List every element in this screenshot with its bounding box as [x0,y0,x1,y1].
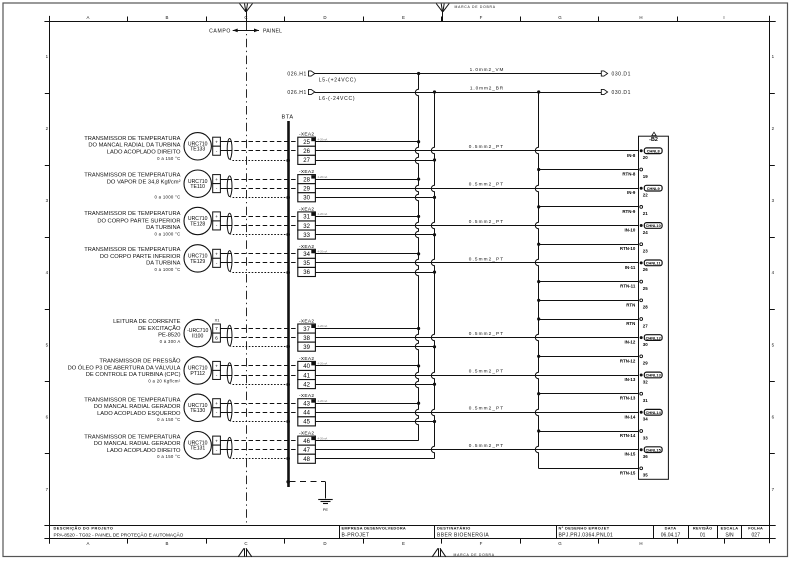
svg-text:0.5mm2_PT: 0.5mm2_PT [469,406,504,411]
wire +24 feed terminal 31 [315,216,418,218]
svg-text:Nº DESENHO EPROJET: Nº DESENHO EPROJET [559,526,610,531]
svg-text:0.5mm2_PT: 0.5mm2_PT [469,443,504,448]
junction L6 bus2 [433,90,436,93]
pin 34 IN-14 of card -B2 [625,409,663,421]
svg-text:REVISÃO: REVISÃO [693,526,713,531]
svg-text:DO MANCAL RADIAL GERADOR: DO MANCAL RADIAL GERADOR [94,404,181,410]
svg-text:7: 7 [215,326,218,332]
svg-text:PE: PE [323,507,329,512]
junction terminal 36 to bus2 [433,271,436,274]
junction RTN-8 bus3 [537,168,540,171]
pin 25 RTN-11 of card -B2 [620,280,648,291]
svg-text:6: 6 [215,335,218,341]
junction terminal 42 to bus2 [433,383,436,386]
wire shield terminal 36 [315,272,434,274]
terminal block -XEA2 25-27 [298,132,328,165]
wire BTA to ground [290,482,326,499]
wire shield drain of TE131 to BTA [230,457,289,460]
pin 23 RTN-10 of card -B2 [620,243,648,254]
svg-text:4-20mA: 4-20mA [318,399,328,403]
svg-text:41: 41 [303,373,310,379]
svg-text:4-20mA: 4-20mA [318,250,328,254]
junction terminal 33 to bus2 [433,233,436,236]
svg-text:IN-14: IN-14 [625,414,636,419]
svg-text:RTN-12: RTN-12 [620,358,636,363]
svg-text:C: C [244,541,247,546]
junction BTA to PE [286,480,290,484]
wire field - of TE128 [220,225,227,227]
junction terminal 27 to bus2 [433,158,436,161]
wire signal terminal 47 0.5mm2_PT [315,443,638,449]
svg-text:DA TURBINA: DA TURBINA [146,225,181,231]
junction shield TE131 on BTA [286,457,290,461]
pin 24 IN-10 of card -B2 [625,223,663,235]
fold mark bottom C [238,548,252,557]
fold mark top C [240,4,253,22]
svg-text:0 a 1000 °C: 0 a 1000 °C [154,195,180,200]
node CAMPO/PAINEL boundary labels [209,28,282,34]
ground PE [318,500,333,504]
wire shield terminal 39 [315,346,434,348]
wire shield terminal 48 [315,458,434,460]
svg-text:PE-8520: PE-8520 [158,333,180,339]
svg-text:DO MANCAL RADIAL DA TURBINA: DO MANCAL RADIAL DA TURBINA [88,142,180,148]
svg-text:S/N: S/N [725,533,734,539]
wire +24 feed terminal 40 [315,365,418,367]
junction terminal 28 to bus1 [417,178,420,181]
wire L6-(-24VCC) rail [315,86,602,103]
svg-text:A: A [87,15,90,20]
wire signal terminal 29 0.5mm2_PT [315,182,638,189]
pin 36 IN-15 of card -B2 [625,447,663,459]
wire signal terminal 35 0.5mm2_PT [315,256,638,262]
svg-text:0.5mm2_PT: 0.5mm2_PT [469,182,504,187]
junction RTN-9 bus3 [537,205,540,208]
svg-text:DE EXCITAÇÃO: DE EXCITAÇÃO [138,325,181,332]
node BTA cable duct [282,114,294,487]
svg-text:1.0mm2_VM: 1.0mm2_VM [470,67,505,72]
junction shield TE110 on BTA [286,196,290,200]
junction terminal 39 to bus2 [433,345,436,348]
wire L5-(+24VCC) rail [315,67,602,84]
svg-text:RTN-14: RTN-14 [620,433,636,438]
svg-text:22: 22 [643,193,648,198]
svg-text:31: 31 [303,215,310,221]
svg-text:PT112: PT112 [190,371,205,377]
svg-text:L5-(+24VCC): L5-(+24VCC) [319,78,357,84]
svg-text:33: 33 [303,233,310,239]
svg-text:28: 28 [643,305,648,310]
wire field + of PT112 [220,365,227,367]
svg-text:IN-8: IN-8 [627,153,636,158]
svg-text:X1: X1 [215,317,221,322]
svg-text:DO CORPO PARTE SUPERIOR: DO CORPO PARTE SUPERIOR [97,219,180,225]
svg-text:20: 20 [643,155,648,160]
svg-text:BPJ.PRJ.0364.PNL01: BPJ.PRJ.0364.PNL01 [559,533,614,539]
svg-text:4-20mA: 4-20mA [318,137,328,141]
terminal block -XEA2 37-39 [298,319,328,352]
svg-text:0.5mm2_PT: 0.5mm2_PT [469,368,504,373]
label transmitter PT112 description [68,358,181,384]
wire shield drain of TE133 to BTA [230,159,289,160]
wire +24 feed terminal 25 [315,141,418,143]
wire field - of TE130 [220,412,227,414]
cable shield of II100 [227,325,232,346]
wire RTN-9 pin 21 [539,206,639,208]
junction RTN-13 bus3 [537,392,540,395]
svg-text:27: 27 [303,158,310,164]
node 030.D1 dest L5 [601,71,631,78]
svg-text:40: 40 [303,364,310,370]
svg-text:37: 37 [303,327,310,333]
junction shield TE130 on BTA [286,420,290,424]
terminals of TE128 [213,212,221,230]
svg-text:L6-(-24VCC): L6-(-24VCC) [319,96,356,102]
transmitter II100 (-URC710) [184,319,211,346]
terminals of II100 [213,317,221,342]
cable shield of TE130 [227,400,232,421]
label transmitter TE131 description [84,435,181,460]
wire RTN-8 pin 19 [539,169,639,171]
svg-text:+: + [215,253,218,258]
svg-text:32: 32 [303,224,310,230]
junction RTN-14 bus3 [537,429,540,432]
pin 19 RTN-8 of card -B2 [622,168,648,179]
junction shield TE128 on BTA [286,233,290,237]
svg-text:26: 26 [303,149,310,155]
wire signal terminal 41 0.5mm2_PT [315,368,638,375]
svg-text:DESCRIÇÃO DO PROJETO: DESCRIÇÃO DO PROJETO [54,526,114,531]
junction L5 bus1 [417,72,420,75]
wire RTN pin 27 [539,319,639,321]
svg-text:TE133: TE133 [190,147,205,153]
svg-text:LEITURA DE CORRENTE: LEITURA DE CORRENTE [113,319,181,325]
svg-text:TRANSMISSOR DE TEMPERATURA: TRANSMISSOR DE TEMPERATURA [84,398,180,404]
wire +24 feed terminal 37 [315,328,418,330]
wire shield drain of TE128 to BTA [230,233,289,236]
wire field + of TE133 [220,141,227,143]
wire field - of TE133 [220,150,227,152]
wire field - of TE129 [220,262,227,264]
svg-text:36: 36 [303,270,310,276]
svg-text:LADO ACOPLADO ESQUERDO: LADO ACOPLADO ESQUERDO [97,411,181,417]
junction terminal 30 to bus2 [433,196,436,199]
svg-text:43: 43 [303,402,310,408]
junction shield II100 on BTA [286,345,290,349]
bus -24VCC shield collector (bus2) [431,93,434,459]
cable shield of TE129 [227,251,232,272]
junction terminal 34 to bus1 [417,252,420,255]
wire shield drain of TE130 to BTA [230,420,289,423]
svg-text:0 a 150 °C: 0 a 150 °C [157,156,180,161]
svg-text:BTA: BTA [282,114,294,120]
svg-text:38: 38 [303,336,310,342]
svg-text:21: 21 [643,211,648,216]
junction shield TE129 on BTA [286,271,290,275]
svg-text:RTN: RTN [626,302,635,307]
svg-text:TE131: TE131 [190,446,205,452]
pin 35 RTN-15 of card -B2 [620,467,648,478]
svg-text:A: A [87,541,90,546]
pin 21 RTN-9 of card -B2 [622,206,648,217]
svg-text:CHNL15: CHNL15 [646,447,662,452]
svg-text:0.5mm2_PT: 0.5mm2_PT [469,144,504,149]
svg-text:+: + [215,140,218,145]
svg-text:G: G [558,541,562,546]
svg-text:B-PROJET: B-PROJET [342,533,370,539]
svg-text:31: 31 [643,398,648,403]
svg-text:0.5mm2_PT: 0.5mm2_PT [469,256,504,261]
label transmitter II100 description [113,319,181,344]
terminal block -XEA2 43-45 [298,393,328,426]
svg-text:4-20mA: 4-20mA [318,175,328,179]
wire field + of TE128 [220,216,227,218]
svg-text:48: 48 [303,457,310,463]
svg-text:RTN: RTN [626,321,635,326]
svg-text:B: B [166,15,169,20]
wire field - of TE110 [220,188,227,190]
junction RTN-11 bus3 [537,280,540,283]
svg-text:06.04.17: 06.04.17 [661,533,681,539]
wire field + of II100 [220,328,227,330]
svg-text:33: 33 [643,435,648,440]
wire signal terminal 38 0.5mm2_PT [315,331,638,338]
wire field + of TE129 [220,253,227,255]
wire shield drain of TE129 to BTA [230,271,289,272]
svg-text:39: 39 [303,345,310,351]
svg-text:DATA: DATA [665,526,677,531]
svg-text:E: E [402,15,405,20]
wire signal terminal 32 0.5mm2_PT [315,219,638,226]
svg-text:TRANSMISSOR DE TEMPERATURA: TRANSMISSOR DE TEMPERATURA [84,247,180,253]
svg-text:TRANSMISSOR DE TEMPERATURA: TRANSMISSOR DE TEMPERATURA [84,211,180,217]
svg-text:LADO ACOPLADO DIREITO: LADO ACOPLADO DIREITO [107,149,181,155]
svg-text:30: 30 [303,196,310,202]
svg-text:FOLHA: FOLHA [748,526,763,531]
junction RTN-12 bus3 [537,355,540,358]
terminals of TE129 [213,249,221,267]
node 030.D1 dest L6 [601,89,631,96]
svg-text:4-20mA: 4-20mA [318,324,328,328]
junction terminal 31 to bus1 [417,215,420,218]
cable shield of TE133 [227,139,232,160]
svg-text:44: 44 [303,411,310,417]
svg-text:MARCA DE DOBRA: MARCA DE DOBRA [454,553,495,557]
pin 27 RTN of card -B2 [626,318,648,329]
svg-text:1.0mm2_BR: 1.0mm2_BR [470,86,504,91]
svg-text:+: + [215,215,218,220]
svg-text:IN-10: IN-10 [625,228,636,233]
terminals of PT112 [213,361,221,379]
svg-text:23: 23 [643,249,648,254]
svg-text:RTN-15: RTN-15 [620,470,636,475]
svg-text:BBER BIOENERGIA: BBER BIOENERGIA [437,533,489,539]
wire RTN-10 pin 23 [539,244,639,246]
svg-text:0 a 150 °C: 0 a 150 °C [157,454,180,459]
svg-text:CHNL8: CHNL8 [647,149,661,154]
wire shield drain of PT112 to BTA [230,383,289,384]
svg-text:IN-11: IN-11 [625,265,636,270]
svg-text:D: D [323,541,326,546]
svg-text:4-20mA: 4-20mA [318,436,328,440]
label transmitter TE128 description [84,211,180,237]
svg-text:RTN-9: RTN-9 [622,209,635,214]
svg-text:36: 36 [643,454,648,459]
svg-text:-B2: -B2 [649,137,658,143]
svg-text:F: F [480,15,483,20]
svg-text:CHNL9: CHNL9 [647,186,661,191]
svg-text:35: 35 [303,261,310,267]
svg-text:TE129: TE129 [190,259,205,265]
svg-text:RTN-11: RTN-11 [620,284,636,289]
wire field - of TE131 [220,449,227,451]
svg-text:32: 32 [643,379,648,384]
cable shield of TE131 [227,437,232,458]
junction terminal 37 to bus1 [417,327,420,330]
terminal block -XEA2 28-30 [298,169,328,202]
cable shield of TE110 [227,176,232,197]
svg-text:IN-15: IN-15 [625,452,636,457]
svg-text:DE CONTROLE DA TURBINA (CPC): DE CONTROLE DA TURBINA (CPC) [86,372,181,378]
svg-text:DO VAPOR DE 34,8 Kgf/cm²: DO VAPOR DE 34,8 Kgf/cm² [107,179,181,185]
svg-text:TE130: TE130 [190,408,205,414]
cable shield of PT112 [227,363,232,384]
terminals of TE130 [213,399,221,417]
wire +24 feed terminal 46 [315,440,418,442]
node 026.H1 source L5 [287,71,314,78]
svg-text:TRANSMISSOR DE PRESSÃO: TRANSMISSOR DE PRESSÃO [99,358,181,365]
svg-text:H: H [639,15,642,20]
svg-text:0 a 1000 °C: 0 a 1000 °C [154,232,180,237]
pin 33 RTN-14 of card -B2 [620,430,648,441]
transmitter TE128 (URC710) [184,207,211,234]
svg-text:4-20mA: 4-20mA [318,212,328,216]
junction terminal 45 to bus2 [433,420,436,423]
svg-text:TE128: TE128 [190,221,205,227]
fold mark top F [436,4,449,22]
terminal block -XEA2 31-33 [298,206,328,239]
svg-text:30: 30 [643,342,648,347]
svg-text:CHNL12: CHNL12 [646,335,662,340]
svg-text:H: H [639,541,642,546]
transmitter TE110 (URC710) [184,170,211,197]
svg-text:LADO ACOPLADO DIREITO: LADO ACOPLADO DIREITO [107,448,181,454]
svg-text:45: 45 [303,420,310,426]
terminals of TE110 [213,175,221,193]
wire campo/painel boundary line [246,22,248,525]
svg-text:42: 42 [303,382,310,388]
svg-text:25: 25 [643,286,648,291]
svg-text:D: D [323,15,326,20]
svg-text:ESCALA: ESCALA [721,526,739,531]
node 026.H1 source L6 [287,89,314,96]
svg-text:F: F [480,541,483,546]
wire RTN-13 pin 31 [539,393,639,395]
svg-text:0 a 150 °C: 0 a 150 °C [157,417,180,422]
wire field + of TE131 [220,440,227,442]
svg-text:027: 027 [752,533,761,539]
svg-text:26: 26 [643,267,648,272]
title block [340,525,742,539]
svg-text:RTN-13: RTN-13 [620,396,636,401]
pin 30 IN-12 of card -B2 [625,335,663,347]
wire shield terminal 33 [315,234,434,236]
svg-text:IN-13: IN-13 [625,377,636,382]
junction RTN bus3 [537,317,540,320]
wire signal terminal 26 0.5mm2_PT [315,144,638,150]
pin 20 IN-8 of card -B2 [627,148,662,160]
svg-text:I: I [723,15,724,20]
terminal block -XEA2 40-42 [298,356,328,389]
wire shield terminal 30 [315,197,434,199]
bus 0V RTN (bus3) [535,93,538,469]
svg-text:CAMPO: CAMPO [209,28,231,34]
wire field + of TE110 [220,179,227,181]
svg-text:+: + [215,439,218,444]
svg-text:0.5mm2_PT: 0.5mm2_PT [469,331,504,336]
svg-text:TRANSMISSOR DE TEMPERATURA: TRANSMISSOR DE TEMPERATURA [84,136,180,142]
svg-text:RTN-8: RTN-8 [622,172,635,177]
transmitter TE130 (URC710) [184,394,211,421]
wire signal terminal 44 0.5mm2_PT [315,406,638,413]
junction RTN bus3 [537,299,540,302]
svg-text:DO MANCAL RADIAL GERADOR: DO MANCAL RADIAL GERADOR [94,441,181,447]
wire field - of PT112 [220,375,227,377]
junction RTN-10 bus3 [537,243,540,246]
transmitter PT112 (URC710) [184,357,211,384]
svg-text:0.5mm2_PT: 0.5mm2_PT [469,219,504,224]
svg-text:E: E [402,541,405,546]
svg-text:28: 28 [303,177,310,183]
junction shield TE133 on BTA [286,159,290,163]
svg-text:29: 29 [303,187,310,193]
pin 26 IN-11 of card -B2 [625,260,662,272]
transmitter TE131 (URC710) [184,432,211,459]
svg-text:29: 29 [643,361,648,366]
wire shield terminal 45 [315,421,434,423]
bus +24VCC (bus1) [415,74,418,441]
svg-text:DO ÓLEO P3 DE ABERTURA DA VÁLV: DO ÓLEO P3 DE ABERTURA DA VÁLVULA [68,364,181,371]
wire +24 feed terminal 28 [315,179,418,181]
cable shield of TE128 [227,213,232,234]
terminal block -XEA2 46-48 [298,431,328,464]
svg-text:35: 35 [643,473,648,478]
pin 28 RTN of card -B2 [626,299,648,310]
wire field + of TE130 [220,403,227,405]
svg-text:TRANSMISSOR DE TEMPERATURA: TRANSMISSOR DE TEMPERATURA [84,173,180,179]
svg-text:TRANSMISSOR DE TEMPERATURA: TRANSMISSOR DE TEMPERATURA [84,435,180,441]
svg-text:MARCA DE DOBRA: MARCA DE DOBRA [455,5,496,9]
svg-text:RTN-10: RTN-10 [620,246,636,251]
svg-text:19: 19 [643,174,648,179]
svg-text:DESTINATÁRIO: DESTINATÁRIO [437,526,471,531]
svg-text:II100: II100 [192,334,203,340]
svg-text:G: G [558,15,562,20]
svg-text:026.H1: 026.H1 [287,72,306,78]
junction terminal 25 to bus1 [417,140,420,143]
label transmitter TE129 description [84,247,180,272]
svg-text:CHNL13: CHNL13 [646,373,662,378]
svg-text:IN-9: IN-9 [627,190,636,195]
svg-text:25: 25 [303,140,310,146]
terminals of TE131 [213,436,221,454]
junction terminal 43 to bus1 [417,402,420,405]
svg-text:DA TURBINA: DA TURBINA [146,260,181,266]
svg-text:+: + [215,365,218,370]
svg-text:IN-12: IN-12 [625,340,636,345]
svg-text:B: B [166,541,169,546]
pin 29 RTN-12 of card -B2 [620,355,648,366]
